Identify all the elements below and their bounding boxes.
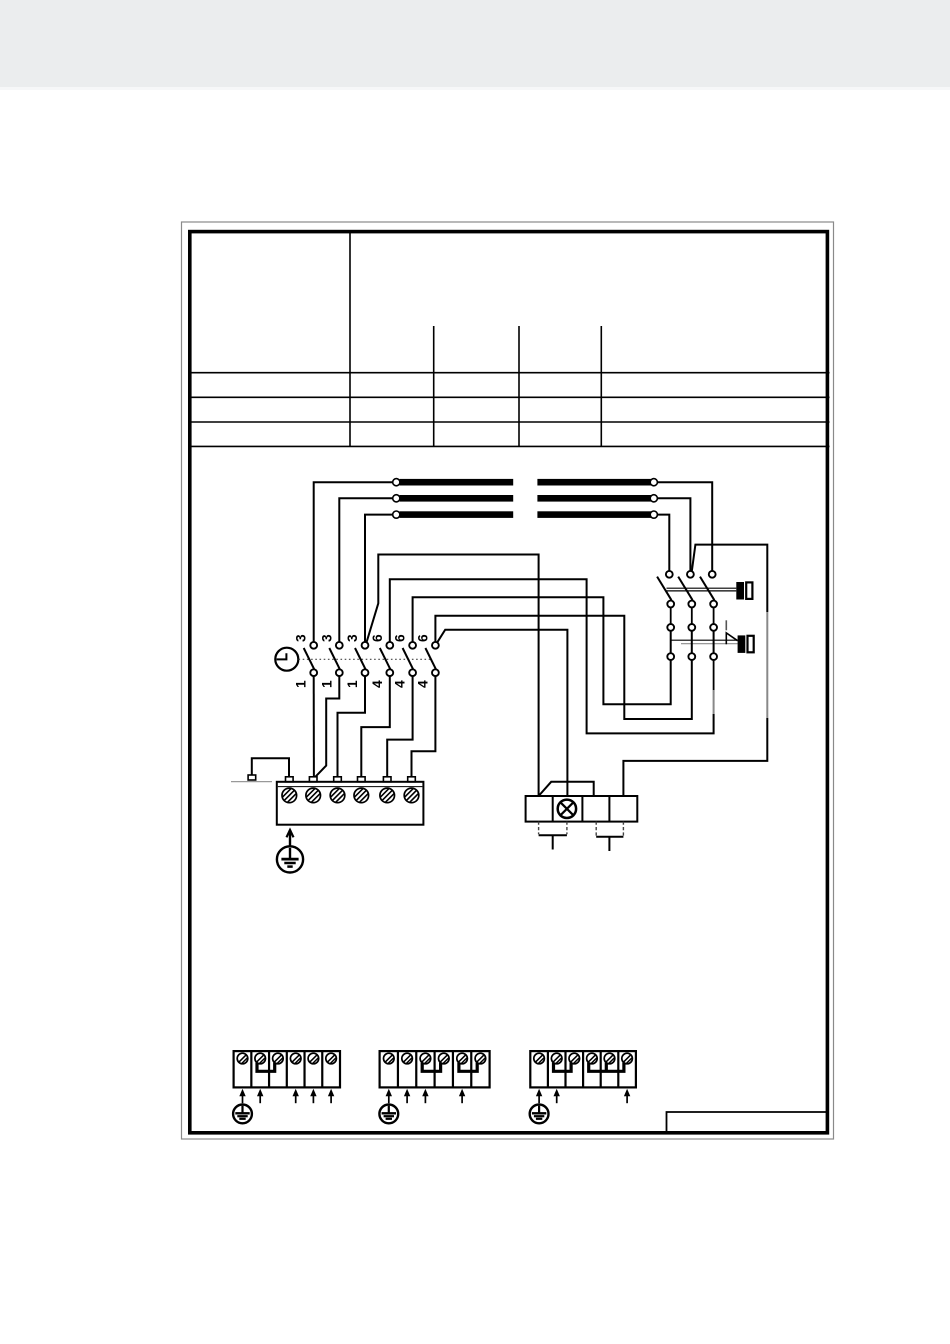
switch S3 bottom contact [362,669,369,676]
limiter upper pole 1 top contact [666,571,673,578]
regulator pole 3 bottom contact [710,653,717,660]
terminal block X4 divider 2 [564,1051,566,1087]
table row line 1 [188,372,830,374]
page header band [0,0,950,87]
switch S4 bottom contact [386,669,393,676]
title box [667,1112,827,1132]
terminal block X2 body [234,1051,340,1087]
terminal block X2 jumper link cells 2-3 [257,1063,275,1072]
terminal block X3 screw 1 [384,1053,395,1064]
heating element left bank E1 [400,479,514,486]
wire switch S3 to lamp terminal 1 [367,555,539,797]
terminal block X4 divider 4 [600,1051,602,1087]
wire regulator pole 3 to switch S4 [713,660,715,690]
heating element right bank E5 [537,495,651,502]
svg-text:4: 4 [393,680,408,688]
dashed lead lamp terminal 4 [622,822,624,836]
terminal block X3 divider 1 [397,1051,399,1087]
svg-text:4: 4 [370,680,385,688]
inner thick frame [190,232,828,1133]
regulator pole 3 top contact [710,624,717,631]
terminal block X4 screw 3 [569,1053,580,1064]
switch S1 bottom contact [310,669,317,676]
terminal block X2 screw 2 [255,1053,266,1064]
wire S1 to terminal 2 [313,676,315,777]
switch S1 blade [304,648,315,669]
terminal block X4 conductor arrow cell 2 [554,1089,560,1104]
wire S6 to terminal 6 [412,676,436,777]
switch bank coupling (dotted) [299,658,431,660]
terminal block X3 body [380,1051,490,1087]
switch S5 blade [403,648,414,669]
wire upper to lower switch pole 2 [691,607,693,624]
wire E5 to contactor pole 2 [657,498,690,571]
supply bracket L [539,834,567,836]
terminal block X3 conductor arrow cell 5 [459,1089,465,1104]
terminal block X4 divider 1 [547,1051,549,1087]
terminal block X2 conductor arrow cell 6 [328,1089,334,1104]
terminal block X4 jumper link cells 2-3 [554,1063,572,1072]
indicator box divider 2 [581,796,583,822]
limiter upper pole 3 blade [700,577,714,601]
regulator pole 2 closed contact bar [691,631,693,653]
terminal block X4 jumper tooth cell 5 [605,1063,608,1072]
terminal lug 2 [309,777,317,782]
regulator pole 3 closed contact bar [713,631,715,653]
supply bracket N [596,836,623,838]
terminal block X4 screw 2 [551,1053,562,1064]
wire E1 to switch S1 [314,482,393,642]
wire regulator pole 2 to switch S6 [435,616,691,719]
supply stub N [608,837,610,851]
protective earth symbol terminal block X2 [233,1105,252,1124]
terminal block X3 divider 3 [434,1051,436,1087]
upper limiter linkage bar [667,587,737,589]
table column line 2 [518,326,520,446]
main terminal block inner line [278,786,423,788]
terminal lug 1 [286,777,294,782]
svg-text:1: 1 [345,680,360,688]
wire contactor pole 2 to lamp terminal 4 [692,545,768,612]
heating element left bank E2 [400,495,514,502]
dashed lead lamp terminal 2 [566,822,568,835]
switch S2 blade [329,648,340,669]
table row line 2 [188,396,830,398]
terminal block X2 divider 2 [268,1051,270,1087]
terminal block X3 screw 3 [420,1053,431,1064]
terminal block X3 conductor arrow cell 3 [422,1089,428,1104]
table header divider (vertical) [349,230,351,446]
terminal screw 5 [380,788,395,803]
terminal block X3 divider 2 [415,1051,417,1087]
terminal block X4 screw 4 [587,1053,598,1064]
terminal screw 6 [404,788,419,803]
terminal lug 3 [334,777,342,782]
terminal block X3 screw 5 [457,1053,468,1064]
terminal block X3 conductor arrow cell 1 [386,1089,392,1104]
neutral lug [248,775,256,780]
indicator box divider 3 [608,796,610,822]
terminal lug 4 [358,777,366,782]
terminal block X2 conductor arrow cell 4 [293,1089,299,1104]
svg-text:6: 6 [393,634,408,642]
terminal screw 3 [330,788,345,803]
svg-text:4: 4 [415,680,430,688]
svg-text:3: 3 [345,634,360,642]
terminal block X3 screw 2 [402,1053,413,1064]
wire E2 to switch S2 [339,498,392,642]
heating element right bank E6 [537,511,651,518]
svg-text:6: 6 [415,634,430,642]
neutral stub (grey) [231,781,272,783]
protective earth symbol terminal block X4 [530,1105,549,1124]
terminal block X2 screw 3 [273,1053,284,1064]
regulator pole 1 bottom contact [667,653,674,660]
wire upper to lower switch pole 3 [713,607,715,624]
terminal block X3 screw 6 [475,1053,486,1064]
terminal block X3 screw 4 [439,1053,450,1064]
switch S2 bottom contact [336,669,343,676]
wire S5 to terminal 5 [387,676,412,777]
svg-text:1: 1 [294,680,309,688]
terminal block X4 screw 6 [622,1053,633,1064]
terminal block X3 conductor arrow cell 2 [404,1089,410,1104]
limiter upper pole 2 bottom contact [688,601,695,608]
terminal block X2 screw 4 [290,1053,301,1064]
terminal lug 5 [383,777,391,782]
terminal screw 1 [282,788,297,803]
svg-text:6: 6 [370,634,385,642]
table row line 3 [188,421,830,423]
indicator terminal box [526,796,638,822]
heating element left bank E3 [400,511,514,518]
terminal block X4 conductor arrow cell 1 [536,1089,542,1104]
regulator pole 1 closed contact bar [670,631,672,653]
terminal block X4 divider 5 [617,1051,619,1087]
earth arrow main block [287,830,294,846]
terminal block X2 screw 5 [308,1053,319,1064]
terminal block X2 conductor arrow cell 2 [257,1089,263,1104]
terminal block X4 divider 3 [582,1051,584,1087]
svg-text:1: 1 [319,680,334,688]
wire E4 to contactor pole 3 [657,482,712,571]
switch S5 bottom contact [409,669,416,676]
table column line 3 [600,326,602,446]
terminal block X3 divider 5 [470,1051,472,1087]
terminal block X2 screw 1 [237,1053,248,1064]
table bottom line [188,445,830,447]
switch S4 top contact [386,642,393,649]
heating element right bank E4 [537,479,651,486]
terminal block X4 body [530,1051,636,1087]
regulator pole 1 top contact [667,624,674,631]
terminal block X4 screw 5 [604,1053,615,1064]
protective earth symbol main block [277,846,303,872]
limiter upper pole 2 blade [678,577,692,601]
terminal block X4 conductor arrow cell 6 [624,1089,630,1104]
terminal block X2 conductor arrow cell 5 [310,1089,316,1104]
limiter upper pole 3 top contact [709,571,716,578]
wire lamp bridge terminal 1 to 3 [539,782,594,796]
terminal block X3 jumper link cells 5-6 [459,1063,477,1072]
limiter upper pole 3 bottom contact [710,601,717,608]
terminal block X2 divider 4 [303,1051,305,1087]
terminal block X2 conductor arrow cell 1 [239,1089,245,1104]
wire E3 to switch S3 [365,515,393,642]
wire E6 to contactor pole 1 [657,515,669,571]
switch S5 top contact [409,642,416,649]
switch S2 top contact [336,642,343,649]
limiter upper pole 2 top contact [687,571,694,578]
switch S6 top contact [432,642,439,649]
timer clock symbol [275,648,298,671]
switch S1 top contact [310,642,317,649]
supply stub L [552,835,554,849]
terminal block X4 jumper link cells 4-5-6 [589,1063,624,1072]
terminal block X2 divider 1 [250,1051,252,1087]
wire switch S6 to lamp terminal 2 [437,630,567,796]
terminal block X2 screw 6 [326,1053,337,1064]
wire S4 to terminal 4 [361,676,390,777]
table column line 1 [433,326,435,446]
terminal block X4 screw 1 [534,1053,545,1064]
terminal lug 6 [408,777,416,782]
svg-text:3: 3 [294,634,309,642]
terminal block X3 jumper link cells 3-4 [422,1063,440,1072]
regulator pole 2 bottom contact [688,653,695,660]
protective earth symbol terminal block X3 [379,1105,398,1124]
switch S3 top contact [362,642,369,649]
limiter upper pole 1 bottom contact [667,601,674,608]
svg-text:3: 3 [319,634,334,642]
outer sheet border [182,222,834,1139]
terminal block X2 divider 5 [321,1051,323,1087]
switch S3 blade [355,648,366,669]
wire S2 to terminal 2 [316,676,340,777]
regulator actuator [738,635,746,653]
limiter actuator (safety thermal cut-out) [736,582,744,600]
wire S3 to terminal 3 [338,676,366,777]
dashed lead lamp terminal 3 [595,822,597,836]
switch S6 blade [425,648,436,669]
dashed lead lamp terminal 1 [538,822,540,835]
terminal screw 2 [306,788,321,803]
limiter upper pole 1 blade [657,577,671,601]
wire regulator pole 1 to switch S5 [413,597,671,704]
terminal block X2 divider 3 [286,1051,288,1087]
switch S6 bottom contact [432,669,439,676]
indicator box divider 1 [552,796,554,822]
terminal block X3 divider 4 [452,1051,454,1087]
terminal screw 4 [354,788,369,803]
regulator linkage bar [671,639,738,641]
wire upper to lower switch pole 1 [670,607,672,624]
signal lamp H1 [558,800,576,818]
switch S4 blade [380,648,391,669]
main terminal block body [277,782,424,825]
regulator trip indicator [725,620,727,630]
bridge neutral to terminal 1 [252,758,289,776]
regulator pole 2 top contact [688,624,695,631]
